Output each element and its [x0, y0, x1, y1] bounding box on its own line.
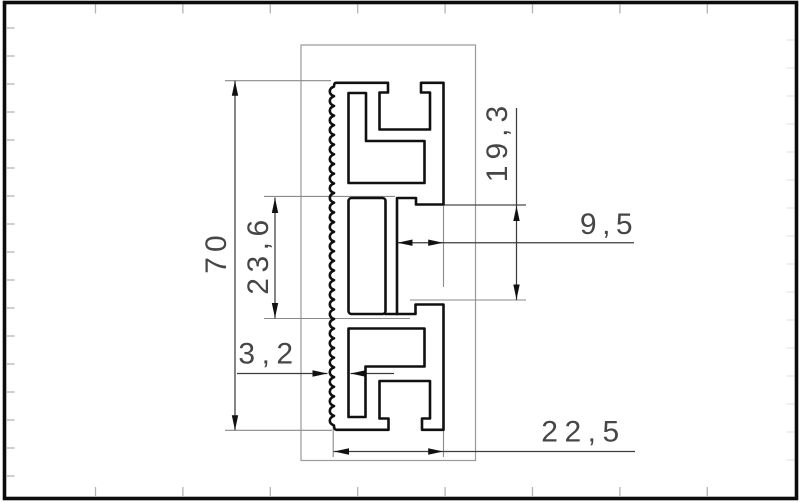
svg-text:3,2: 3,2	[238, 338, 299, 371]
svg-text:22,5: 22,5	[541, 416, 625, 449]
svg-text:23,6: 23,6	[242, 214, 275, 294]
svg-text:9,5: 9,5	[580, 208, 638, 241]
svg-text:19,3: 19,3	[481, 100, 514, 182]
svg-text:70: 70	[200, 230, 233, 273]
